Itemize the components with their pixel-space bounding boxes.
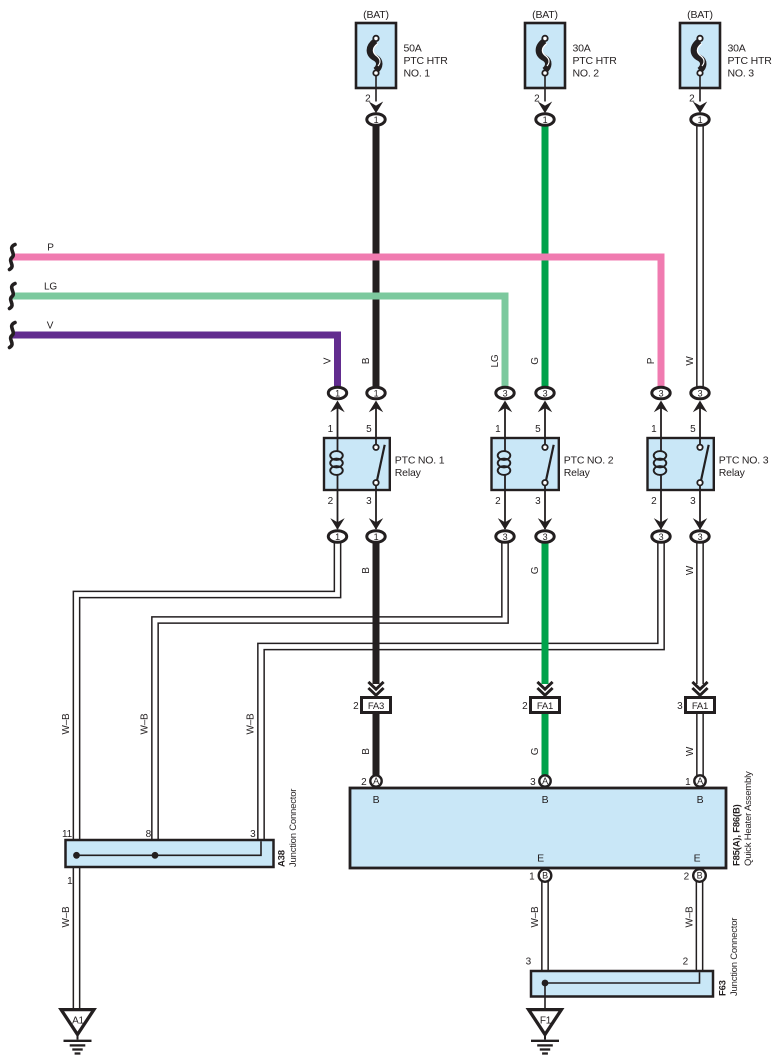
svg-text:NO. 3: NO. 3 bbox=[728, 68, 755, 80]
svg-text:3: 3 bbox=[659, 532, 664, 542]
svg-text:LG: LG bbox=[44, 282, 57, 293]
svg-text:P: P bbox=[646, 357, 657, 364]
svg-text:FA1: FA1 bbox=[537, 701, 553, 712]
svg-text:1: 1 bbox=[328, 424, 334, 435]
svg-text:3: 3 bbox=[698, 532, 703, 542]
svg-text:2: 2 bbox=[365, 94, 371, 105]
svg-text:Junction Connector: Junction Connector bbox=[729, 918, 740, 996]
svg-text:2: 2 bbox=[689, 94, 695, 105]
svg-text:G: G bbox=[530, 747, 541, 755]
svg-text:NO. 1: NO. 1 bbox=[404, 68, 431, 80]
svg-text:(BAT): (BAT) bbox=[687, 9, 713, 21]
svg-text:G: G bbox=[530, 566, 541, 574]
svg-text:11: 11 bbox=[62, 829, 73, 840]
svg-text:3: 3 bbox=[535, 496, 541, 507]
svg-text:2: 2 bbox=[522, 701, 528, 712]
svg-text:3: 3 bbox=[503, 388, 508, 398]
svg-text:5: 5 bbox=[690, 424, 696, 435]
svg-text:B: B bbox=[361, 567, 372, 574]
svg-text:A38: A38 bbox=[277, 850, 288, 867]
svg-text:P: P bbox=[47, 243, 54, 254]
svg-text:Quick Heater Assembly: Quick Heater Assembly bbox=[743, 771, 754, 866]
svg-text:B: B bbox=[542, 871, 548, 881]
svg-text:F85(A), F86(B): F85(A), F86(B) bbox=[732, 804, 743, 866]
svg-text:1: 1 bbox=[335, 532, 340, 542]
svg-text:50A: 50A bbox=[404, 43, 422, 55]
svg-text:2: 2 bbox=[651, 496, 657, 507]
svg-text:E: E bbox=[537, 853, 544, 865]
svg-text:W: W bbox=[685, 565, 696, 575]
svg-text:W–B: W–B bbox=[61, 713, 72, 735]
svg-text:3: 3 bbox=[690, 496, 696, 507]
svg-text:3: 3 bbox=[543, 532, 548, 542]
svg-text:2: 2 bbox=[353, 701, 359, 712]
svg-text:Relay: Relay bbox=[564, 467, 591, 479]
svg-text:(BAT): (BAT) bbox=[532, 9, 558, 21]
svg-text:LG: LG bbox=[490, 354, 501, 367]
svg-text:1: 1 bbox=[543, 115, 548, 125]
svg-text:2: 2 bbox=[361, 777, 367, 788]
svg-text:3: 3 bbox=[677, 701, 683, 712]
svg-text:5: 5 bbox=[366, 424, 372, 435]
svg-text:A1: A1 bbox=[72, 1016, 84, 1027]
svg-text:PTC NO. 2: PTC NO. 2 bbox=[564, 455, 614, 467]
svg-text:B: B bbox=[542, 794, 549, 806]
svg-text:1: 1 bbox=[335, 388, 340, 398]
svg-text:(BAT): (BAT) bbox=[363, 9, 389, 21]
svg-text:PTC HTR: PTC HTR bbox=[728, 55, 773, 67]
svg-text:A: A bbox=[373, 776, 379, 786]
svg-text:F63: F63 bbox=[718, 980, 729, 996]
svg-text:1: 1 bbox=[685, 777, 691, 788]
svg-text:2: 2 bbox=[328, 496, 334, 507]
svg-text:FA1: FA1 bbox=[692, 701, 708, 712]
svg-text:2: 2 bbox=[683, 957, 689, 968]
svg-text:3: 3 bbox=[698, 388, 703, 398]
svg-text:3: 3 bbox=[503, 532, 508, 542]
svg-text:30A: 30A bbox=[573, 43, 591, 55]
svg-text:2: 2 bbox=[684, 872, 690, 883]
svg-text:1: 1 bbox=[374, 388, 379, 398]
svg-text:PTC NO. 3: PTC NO. 3 bbox=[719, 455, 769, 467]
svg-text:F1: F1 bbox=[540, 1016, 552, 1027]
svg-text:Relay: Relay bbox=[719, 467, 746, 479]
svg-text:B: B bbox=[373, 794, 380, 806]
svg-text:E: E bbox=[694, 853, 701, 865]
svg-text:30A: 30A bbox=[728, 43, 746, 55]
svg-text:2: 2 bbox=[495, 496, 501, 507]
svg-text:W: W bbox=[685, 356, 696, 366]
svg-text:3: 3 bbox=[366, 496, 372, 507]
svg-text:Junction Connector: Junction Connector bbox=[288, 789, 299, 867]
svg-text:3: 3 bbox=[526, 957, 532, 968]
svg-text:W–B: W–B bbox=[530, 906, 541, 928]
svg-text:B: B bbox=[361, 357, 372, 364]
svg-text:1: 1 bbox=[374, 532, 379, 542]
svg-text:A: A bbox=[542, 776, 548, 786]
svg-text:PTC HTR: PTC HTR bbox=[404, 55, 449, 67]
svg-text:8: 8 bbox=[146, 829, 152, 840]
svg-text:2: 2 bbox=[534, 94, 540, 105]
svg-text:3: 3 bbox=[250, 829, 256, 840]
svg-text:W–B: W–B bbox=[685, 906, 696, 928]
svg-text:W–B: W–B bbox=[246, 713, 257, 735]
svg-text:FA3: FA3 bbox=[368, 701, 384, 712]
svg-text:Relay: Relay bbox=[395, 467, 422, 479]
svg-text:B: B bbox=[697, 794, 704, 806]
svg-text:1: 1 bbox=[495, 424, 501, 435]
svg-text:W–B: W–B bbox=[61, 906, 72, 928]
svg-text:A: A bbox=[697, 776, 703, 786]
svg-text:V: V bbox=[323, 357, 334, 364]
svg-text:1: 1 bbox=[651, 424, 657, 435]
svg-text:1: 1 bbox=[698, 115, 703, 125]
svg-text:1: 1 bbox=[529, 872, 535, 883]
svg-text:3: 3 bbox=[659, 388, 664, 398]
svg-text:B: B bbox=[697, 871, 703, 881]
svg-text:V: V bbox=[47, 321, 54, 332]
svg-text:NO. 2: NO. 2 bbox=[573, 68, 600, 80]
svg-text:1: 1 bbox=[67, 876, 73, 887]
svg-text:5: 5 bbox=[535, 424, 541, 435]
svg-text:B: B bbox=[361, 748, 372, 755]
svg-text:PTC NO. 1: PTC NO. 1 bbox=[395, 455, 445, 467]
svg-text:W–B: W–B bbox=[140, 713, 151, 735]
svg-text:W: W bbox=[685, 746, 696, 756]
svg-text:3: 3 bbox=[530, 777, 536, 788]
svg-text:3: 3 bbox=[543, 388, 548, 398]
svg-text:G: G bbox=[530, 357, 541, 365]
svg-text:1: 1 bbox=[374, 115, 379, 125]
svg-text:PTC HTR: PTC HTR bbox=[573, 55, 618, 67]
